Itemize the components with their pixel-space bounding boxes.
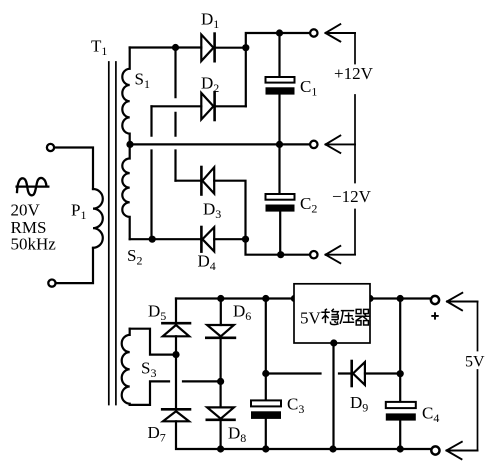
svg-text:S1: S1 — [135, 70, 150, 92]
svg-text:D9: D9 — [350, 393, 368, 415]
wire vertical S1 top to D3 (hops D2 wire and center wire) — [174, 48, 176, 181]
capacitor C2 — [266, 144, 295, 254]
svg-text:C1: C1 — [300, 77, 317, 99]
top rail 5V section — [176, 297, 432, 299]
node S3 bottom tap — [217, 378, 224, 385]
diode D1 — [201, 34, 214, 62]
hanzi qi (device) — [355, 309, 369, 325]
wire tap to D7 — [175, 355, 177, 408]
node C4 top — [397, 295, 404, 302]
arrow common — [326, 136, 356, 153]
wire D5 to tap — [175, 336, 177, 354]
node C4 rail — [397, 445, 404, 452]
wire tap to D8 — [220, 381, 222, 407]
input terminal bottom — [48, 280, 55, 287]
diode D3 — [201, 167, 214, 195]
wire D6 to tap — [220, 338, 222, 382]
svg-text:−12V: −12V — [332, 187, 372, 206]
node C2 bottom — [277, 251, 284, 258]
svg-text:+12V: +12V — [334, 64, 374, 83]
arrow 5V top — [447, 293, 478, 311]
svg-text:C2: C2 — [300, 194, 317, 216]
label + output — [431, 312, 438, 319]
svg-text:5V: 5V — [300, 309, 322, 328]
node D6 top — [217, 295, 224, 302]
capacitor C3 — [251, 400, 281, 449]
diode D4 — [201, 227, 214, 252]
diode D8 — [207, 407, 235, 419]
terminal -12V — [310, 251, 317, 258]
wire input bottom — [56, 248, 93, 283]
wire D2 cathode — [215, 105, 246, 107]
node D9 right — [397, 370, 404, 377]
secondary winding S1 — [122, 48, 129, 145]
node S2 bottom — [149, 236, 156, 243]
node C1-C2 mid — [276, 141, 283, 148]
diode D2 — [201, 92, 214, 120]
wire D3 — [176, 181, 246, 240]
hanzi wen (stable) — [321, 309, 338, 325]
svg-text:50kHz: 50kHz — [11, 235, 57, 254]
primary winding P1 — [93, 189, 103, 248]
wire +12V top — [246, 33, 314, 106]
svg-text:C3: C3 — [287, 395, 304, 417]
wire S2 bottom / D4 — [130, 238, 202, 240]
input terminal top — [47, 144, 54, 151]
node reg gnd — [330, 339, 337, 346]
terminal common — [310, 141, 317, 148]
hanzi ya (pressure) — [340, 311, 354, 324]
node reg out — [366, 295, 373, 302]
node center tap — [126, 141, 133, 148]
node S3 top tap — [172, 351, 179, 358]
node D8 rail — [217, 445, 224, 452]
svg-text:D7: D7 — [148, 423, 166, 445]
wire C4 branch — [399, 299, 401, 402]
svg-text:20V: 20V — [11, 201, 41, 220]
capacitor C4 — [386, 402, 416, 449]
regulator ground lead — [332, 343, 334, 449]
wire D7 to rail — [176, 421, 435, 449]
svg-text:D1: D1 — [201, 10, 219, 32]
svg-text:D6: D6 — [233, 302, 251, 324]
wire center tap — [130, 143, 314, 145]
bracket line 12V — [354, 33, 356, 255]
svg-text:P1: P1 — [71, 201, 86, 223]
svg-text:D2: D2 — [201, 74, 219, 96]
node C3 top — [262, 295, 269, 302]
node S1-top junction — [172, 44, 179, 51]
svg-text:T1: T1 — [91, 37, 107, 59]
bracket line 5V — [477, 302, 479, 451]
winding S3 — [122, 329, 130, 405]
terminal 5V+ — [431, 296, 439, 304]
node C1 top — [276, 29, 283, 36]
arrow +12V — [326, 24, 356, 41]
wire D8 to rail — [220, 420, 222, 449]
node reg gnd rail — [329, 445, 336, 452]
svg-text:S2: S2 — [127, 246, 142, 268]
svg-text:S3: S3 — [141, 359, 156, 381]
node reg in — [291, 295, 298, 302]
wire D2 anode — [152, 105, 202, 107]
terminal 5V- — [431, 446, 439, 454]
wire D4 to -12V — [214, 239, 313, 255]
node D3/D4 join — [242, 236, 249, 243]
svg-text:5V: 5V — [465, 354, 485, 371]
diode D6 — [206, 325, 235, 338]
transformer core — [109, 62, 116, 405]
svg-text:C4: C4 — [422, 404, 439, 426]
capacitor C1 — [266, 33, 295, 144]
wire D9 (hops reg gnd line) — [266, 372, 401, 374]
AC source sine symbol — [17, 178, 49, 195]
diode D9 — [352, 361, 365, 386]
svg-text:D4: D4 — [198, 252, 216, 274]
node D1/D2 join — [242, 44, 249, 51]
arrow 5V bottom — [447, 442, 478, 459]
wire vertical from D2 anode to S2 bottom (hops center wire) — [150, 106, 152, 239]
secondary winding S2 — [122, 144, 129, 239]
wire input top — [54, 148, 93, 190]
wire D6 top — [220, 299, 222, 326]
terminal +12V — [310, 29, 317, 36]
node C3 rail — [262, 445, 269, 452]
wire D1 cathode — [215, 47, 246, 49]
wire C3 branch — [265, 299, 267, 401]
regulator box U1 — [294, 284, 370, 343]
diode D5 — [162, 323, 190, 336]
diode D7 — [162, 409, 190, 421]
arrow -12V — [326, 246, 356, 263]
svg-text:D5: D5 — [148, 302, 166, 324]
svg-text:D8: D8 — [228, 424, 246, 446]
wire S1 top to D1 — [130, 46, 202, 48]
node D9 left — [262, 370, 269, 377]
svg-text:D3: D3 — [203, 200, 221, 222]
